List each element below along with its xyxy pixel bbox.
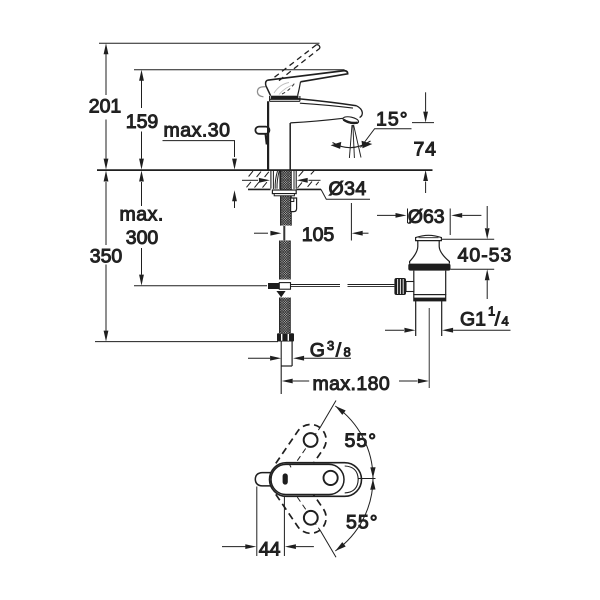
hose mid section [280, 241, 291, 280]
ring lighter part [270, 99, 300, 101]
dim 44 [257, 487, 285, 557]
svg-text:55°: 55° [346, 512, 379, 534]
ext line (159 top, touches lever tip) [134, 69, 345, 71]
bottom ring [414, 295, 446, 301]
water spray lines [349, 125, 361, 158]
washer + nut below deck [272, 190, 296, 194]
neck + bell [410, 241, 418, 264]
svg-text:159: 159 [126, 111, 159, 133]
svg-text:55°: 55° [345, 430, 378, 452]
Ø34 label with jog [321, 189, 370, 199]
rotated centerlines [297, 427, 320, 461]
dim 350 vertical [105, 182, 107, 245]
inner body capsule [271, 464, 344, 494]
pop-up rod fitting [268, 283, 279, 289]
arc arrowheads [335, 406, 345, 415]
rod pivot triangle [276, 291, 285, 297]
body left edge [267, 101, 269, 169]
dim 40-53 [442, 238, 495, 240]
connection tube G3/8 [291, 342, 293, 367]
pop-up knob [255, 127, 269, 134]
rotated hole circles [304, 433, 318, 447]
solid lever [268, 71, 348, 82]
hose end nut [277, 333, 294, 341]
svg-text:40-53: 40-53 [458, 245, 513, 267]
lever handle body / dome [266, 80, 271, 96]
gap in hose with center line [284, 226, 285, 240]
C hook (lever front tip) [257, 87, 265, 97]
dim G 3/8 [248, 357, 270, 359]
svg-text:G1: G1 [460, 309, 486, 331]
rod to drain [291, 284, 395, 286]
top tick [290, 464, 292, 467]
right strip [293, 171, 295, 189]
slot (faucet axis) [283, 473, 288, 484]
dim max.300 vertical [141, 182, 143, 206]
svg-text:max.: max. [120, 204, 164, 226]
svg-text:201: 201 [89, 96, 122, 118]
dashed rotated capsules [276, 424, 326, 533]
cartridge ring: dark band [271, 96, 299, 100]
body right edge [289, 123, 291, 170]
shank through deck: threads [281, 171, 292, 226]
deck hole edges [271, 171, 296, 189]
svg-text:max.180: max.180 [313, 373, 391, 395]
left tab [255, 473, 270, 486]
mounting hole circle [324, 471, 338, 485]
swivel arc with arrows [333, 141, 371, 148]
knurled knob left [394, 278, 406, 295]
plug cap [416, 235, 442, 240]
max.30 lower arrow below counter [232, 190, 237, 201]
svg-text:105: 105 [302, 224, 335, 246]
dim G1 1/4 [385, 329, 404, 331]
svg-text:G: G [310, 340, 325, 362]
deck hatch right part [298, 171, 319, 188]
dashed raised lever [275, 45, 320, 81]
spout tip [357, 106, 363, 118]
max.300 bottom ref line (pop-up rod level) [134, 285, 267, 287]
drain body [414, 271, 446, 295]
svg-text:15°: 15° [376, 108, 409, 130]
svg-text:max.30: max.30 [164, 120, 231, 142]
spout top edges [298, 99, 356, 106]
svg-text:3: 3 [327, 338, 334, 353]
svg-text:74: 74 [414, 139, 437, 161]
pop-up rod guide tube [291, 198, 297, 212]
deck hatch left part [247, 171, 269, 188]
350 bottom ref line [95, 341, 278, 343]
dim 105 [254, 232, 268, 234]
svg-text:Ø34: Ø34 [329, 178, 367, 200]
horizontal centerline [358, 478, 376, 480]
svg-text:Ø63: Ø63 [408, 206, 445, 228]
dim max.180 [282, 379, 293, 384]
svg-text:350: 350 [90, 246, 123, 268]
Ø34 dimension arrows [242, 179, 258, 181]
dim 201 vertical [105, 54, 107, 95]
svg-text:44: 44 [259, 539, 281, 561]
svg-text:/: / [495, 309, 501, 331]
svg-text:8: 8 [344, 345, 351, 360]
ext line top (201 top, touches raised lever) [99, 42, 320, 44]
dim 159 vertical [141, 81, 143, 109]
55 deg arc [335, 406, 373, 551]
dome interior sketch lines [274, 83, 294, 95]
flange seal [408, 264, 450, 271]
svg-text:300: 300 [126, 227, 159, 249]
hose lower section [280, 298, 291, 334]
deck top line [97, 169, 433, 171]
tailpipe [416, 301, 442, 336]
spout underside [290, 118, 343, 123]
outer escutcheon capsule [270, 463, 362, 497]
deck bottom line [248, 188, 321, 190]
aerator [342, 116, 359, 125]
left strip with pop-up rod curve [273, 171, 280, 189]
svg-text:4: 4 [502, 313, 509, 328]
svg-text:/: / [336, 340, 342, 362]
dim Ø63 [408, 209, 451, 236]
